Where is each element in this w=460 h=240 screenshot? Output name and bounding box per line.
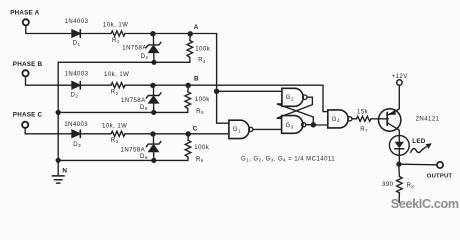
svg-text:1N758A: 1N758A <box>121 98 146 104</box>
transistor Q1 2N4121 <box>379 109 401 131</box>
svg-text:A: A <box>194 24 199 31</box>
svg-text:B: B <box>194 76 199 83</box>
resistor R4 <box>187 36 193 62</box>
svg-text:D2: D2 <box>71 92 79 98</box>
wire <box>25 128 72 134</box>
svg-text:R5: R5 <box>196 109 204 115</box>
svg-text:10k, 1W: 10k, 1W <box>104 72 129 78</box>
svg-text:D4: D4 <box>141 54 149 60</box>
svg-text:R6: R6 <box>196 157 204 163</box>
junction rail B / left vertical <box>56 110 61 115</box>
resistor R5 <box>185 88 191 113</box>
wire to output terminal <box>399 163 437 166</box>
junction D5-rail <box>151 110 156 115</box>
terminal PHASE B <box>22 70 28 76</box>
wire <box>81 133 112 135</box>
wire emitter to +12V <box>398 85 399 109</box>
svg-text:R1: R1 <box>112 38 120 44</box>
zener D4 <box>146 36 161 60</box>
resistor R8 <box>397 167 403 203</box>
bubble G3 <box>302 123 306 127</box>
svg-text:N: N <box>62 167 67 174</box>
bubble G4 <box>348 117 352 121</box>
LED <box>389 136 409 162</box>
svg-text:100k: 100k <box>195 46 210 52</box>
resistor R3 <box>111 131 125 136</box>
svg-text:R8: R8 <box>407 183 415 189</box>
gate G3 (NAND) <box>282 116 303 134</box>
svg-text:PHASE B: PHASE B <box>13 61 43 68</box>
wire node A to vertical <box>216 34 218 124</box>
zener D6 <box>146 136 161 158</box>
node junction (D4 tap) <box>150 31 155 36</box>
svg-text:D1: D1 <box>73 41 81 47</box>
wire G2 out to G3 input (cross couple) <box>277 97 313 118</box>
wire <box>81 33 112 35</box>
wire <box>26 26 72 34</box>
wire G3 out to G2 input (cross couple) <box>306 124 314 126</box>
wire left vertical (to N) <box>57 62 59 160</box>
bubble G1 <box>249 127 253 131</box>
node B <box>186 83 191 88</box>
resistor R6 <box>185 136 191 160</box>
svg-text:15k: 15k <box>357 110 369 116</box>
svg-text:1N758A: 1N758A <box>122 45 147 51</box>
resistor R2 <box>111 83 125 88</box>
junction A-tap <box>214 89 219 94</box>
svg-text:10k, 1W: 10k, 1W <box>103 22 128 28</box>
wire G4 out <box>352 118 356 120</box>
svg-text:2N4121: 2N4121 <box>416 116 440 122</box>
ground N <box>52 160 64 183</box>
svg-text:OUTPUT: OUTPUT <box>427 173 453 179</box>
wire A-tap to G2 input <box>217 90 282 92</box>
svg-text:100k: 100k <box>195 97 210 103</box>
svg-text:PHASE C: PHASE C <box>13 112 43 119</box>
junction rail C / left vertical <box>56 158 61 163</box>
wire rail B <box>58 111 188 113</box>
svg-text:C: C <box>193 125 198 132</box>
op-amp gate G1 (NAND) <box>229 120 249 138</box>
svg-text:G1: G1 <box>233 127 241 133</box>
svg-text:R7: R7 <box>360 127 368 133</box>
svg-text:100k: 100k <box>194 145 209 151</box>
svg-text:G1, G2, G3, G4 = 1/4 MC14011: G1, G2, G3, G4 = 1/4 MC14011 <box>241 156 335 162</box>
svg-text:1N4003: 1N4003 <box>65 71 89 77</box>
svg-text:1N4003: 1N4003 <box>65 19 89 25</box>
wire rail C <box>58 159 188 161</box>
svg-text:SeekIC.com: SeekIC.com <box>391 197 459 211</box>
wire B row across to G4 corner <box>125 84 323 86</box>
svg-text:R2: R2 <box>111 90 119 96</box>
zener D5 <box>146 88 161 110</box>
terminal OUTPUT <box>437 162 443 168</box>
wire <box>26 77 73 86</box>
terminal +12V <box>397 80 402 85</box>
svg-text:G2: G2 <box>286 95 294 101</box>
terminal PHASE A <box>23 19 29 25</box>
resistor R7 <box>357 116 372 121</box>
junction G3 output <box>311 122 316 127</box>
bubble G2 <box>303 95 307 99</box>
svg-text:LED: LED <box>412 138 425 145</box>
wire G1 out to G3 input <box>253 128 282 130</box>
wire collector to LED <box>398 130 400 142</box>
wire <box>125 33 217 35</box>
wire G3 out to G4 input <box>313 124 328 126</box>
wire A-vertical to G1 top input <box>217 122 229 124</box>
diode D2 <box>72 82 80 89</box>
svg-text:G4: G4 <box>332 117 340 123</box>
terminal PHASE C <box>22 122 28 128</box>
wire <box>81 84 112 86</box>
svg-text:D5: D5 <box>140 105 148 111</box>
resistor R1 <box>111 31 125 36</box>
node A <box>188 31 193 36</box>
node junction (D5 tap) <box>150 83 155 88</box>
diode D1 <box>72 30 80 37</box>
LED arrow <box>411 143 432 152</box>
node C <box>186 131 191 136</box>
svg-text:10k, 1W: 10k, 1W <box>102 124 127 130</box>
node junction (D6 tap) <box>150 131 155 136</box>
diode D3 <box>72 130 80 137</box>
svg-text:1N4003: 1N4003 <box>64 122 88 128</box>
svg-text:+12V: +12V <box>392 74 408 80</box>
gate G2 (NAND) <box>282 88 303 106</box>
svg-text:G3: G3 <box>286 123 294 129</box>
svg-text:1N758A: 1N758A <box>121 147 146 153</box>
svg-text:390: 390 <box>382 182 394 188</box>
wire R7 to base <box>371 118 388 120</box>
gate G4 (NAND) <box>328 110 348 128</box>
junction LED/output <box>396 162 401 167</box>
svg-text:R3: R3 <box>111 138 119 144</box>
svg-text:R4: R4 <box>198 58 206 64</box>
wire B down to G4 top input <box>323 85 328 111</box>
svg-text:PHASE A: PHASE A <box>10 10 39 17</box>
svg-text:D6: D6 <box>140 154 148 160</box>
wire C row to G1 <box>125 133 229 135</box>
junction D6-rail <box>151 158 156 163</box>
svg-text:D3: D3 <box>73 142 81 148</box>
junction D4-rail <box>151 60 156 65</box>
wire rail A <box>58 61 190 63</box>
